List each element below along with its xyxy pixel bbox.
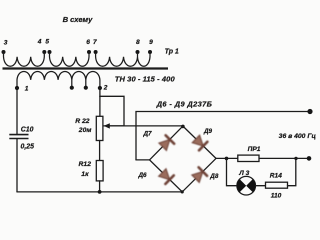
svg-text:5: 5 (45, 39, 49, 46)
fuse PR1 (238, 146, 297, 161)
junction node lamp branch (225, 157, 229, 161)
terminal 5 (45, 39, 51, 54)
lamp L3 (237, 170, 256, 195)
svg-text:Д7: Д7 (143, 131, 153, 138)
svg-text:4: 4 (37, 39, 42, 46)
svg-text:ПР1: ПР1 (248, 146, 261, 153)
node at bridge bottom corner (181, 190, 184, 193)
svg-text:Д9: Д9 (203, 128, 213, 135)
terminal 4 (37, 39, 47, 54)
transformer Tr1 secondary winding (17, 71, 100, 88)
terminal node top right (307, 109, 312, 114)
terminal node right (307, 156, 312, 161)
svg-text:В схему: В схему (63, 15, 94, 24)
transformer Tr1 primary winding (4, 52, 151, 66)
terminal 7 (93, 39, 98, 54)
wire to bridge left corner (136, 159, 150, 161)
svg-text:6: 6 (86, 39, 90, 46)
svg-text:7: 7 (93, 39, 97, 46)
svg-text:8: 8 (136, 39, 140, 46)
wire terminal 2 to wiper line (down, right, down) (100, 88, 124, 126)
bottom bus wire (17, 191, 182, 193)
secondary terminal 1 (15, 85, 29, 92)
terminal 3 (2, 39, 8, 54)
wire to right terminal (296, 157, 309, 159)
resistor R14 (266, 172, 288, 199)
wire lamp to R14 (256, 185, 266, 187)
svg-text:Д6: Д6 (138, 172, 148, 179)
wire terminal2 branch down to R22 top (99, 96, 101, 116)
wire C10 to bottom bus (16, 139, 18, 192)
svg-text:R12: R12 (79, 161, 92, 168)
svg-text:R 22: R 22 (75, 118, 90, 125)
svg-text:R14: R14 (270, 172, 282, 179)
resistor R12 (79, 161, 104, 181)
wire R22 to R12 (99, 141, 101, 161)
wire terminal1 to C10 (16, 88, 18, 134)
capacitor C10 (9, 126, 34, 150)
svg-text:110: 110 (271, 192, 282, 199)
svg-text:Д8: Д8 (209, 173, 219, 180)
svg-text:20м: 20м (78, 127, 92, 134)
top output rail wire (136, 112, 309, 160)
terminal 6 (86, 39, 91, 54)
svg-text:Л 3: Л 3 (238, 170, 249, 177)
svg-text:9: 9 (149, 39, 153, 46)
diode D7 (158, 135, 174, 151)
secondary terminal 2 (98, 85, 108, 92)
wire lamp branch down and across (227, 158, 237, 185)
junction node after fuse (294, 157, 297, 160)
svg-text:ТН 30 - 115 - 400: ТН 30 - 115 - 400 (115, 74, 176, 83)
svg-text:36 в 400 Гц: 36 в 400 Гц (279, 133, 317, 140)
junction node on bus (98, 190, 102, 194)
svg-text:Д6 - Д9 Д237Б: Д6 - Д9 Д237Б (156, 99, 213, 108)
svg-text:C10: C10 (21, 126, 34, 133)
diode D6 (158, 168, 174, 184)
node at bridge top corner (181, 125, 185, 129)
secondary tap node (70, 86, 74, 90)
bridge diamond wires (150, 126, 217, 192)
svg-text:0,25: 0,25 (21, 144, 35, 151)
secondary tap node (84, 86, 88, 90)
wire R12 to bus (99, 181, 101, 192)
transformer core (3, 67, 169, 69)
svg-text:3: 3 (4, 39, 8, 46)
svg-text:1к: 1к (81, 171, 89, 178)
diode D8 (191, 167, 207, 183)
wire wiper line to bridge top corner (104, 125, 183, 127)
svg-text:2: 2 (103, 85, 108, 92)
potentiometer R22 (75, 116, 124, 140)
terminal 9 (148, 39, 153, 54)
wire bridge right corner to fuse (216, 157, 238, 159)
terminal 8 (136, 39, 140, 54)
svg-text:1: 1 (25, 85, 29, 92)
svg-text:Тр 1: Тр 1 (165, 49, 179, 56)
wire R14 up to fuse output (288, 158, 296, 185)
diode D9 (192, 135, 208, 151)
